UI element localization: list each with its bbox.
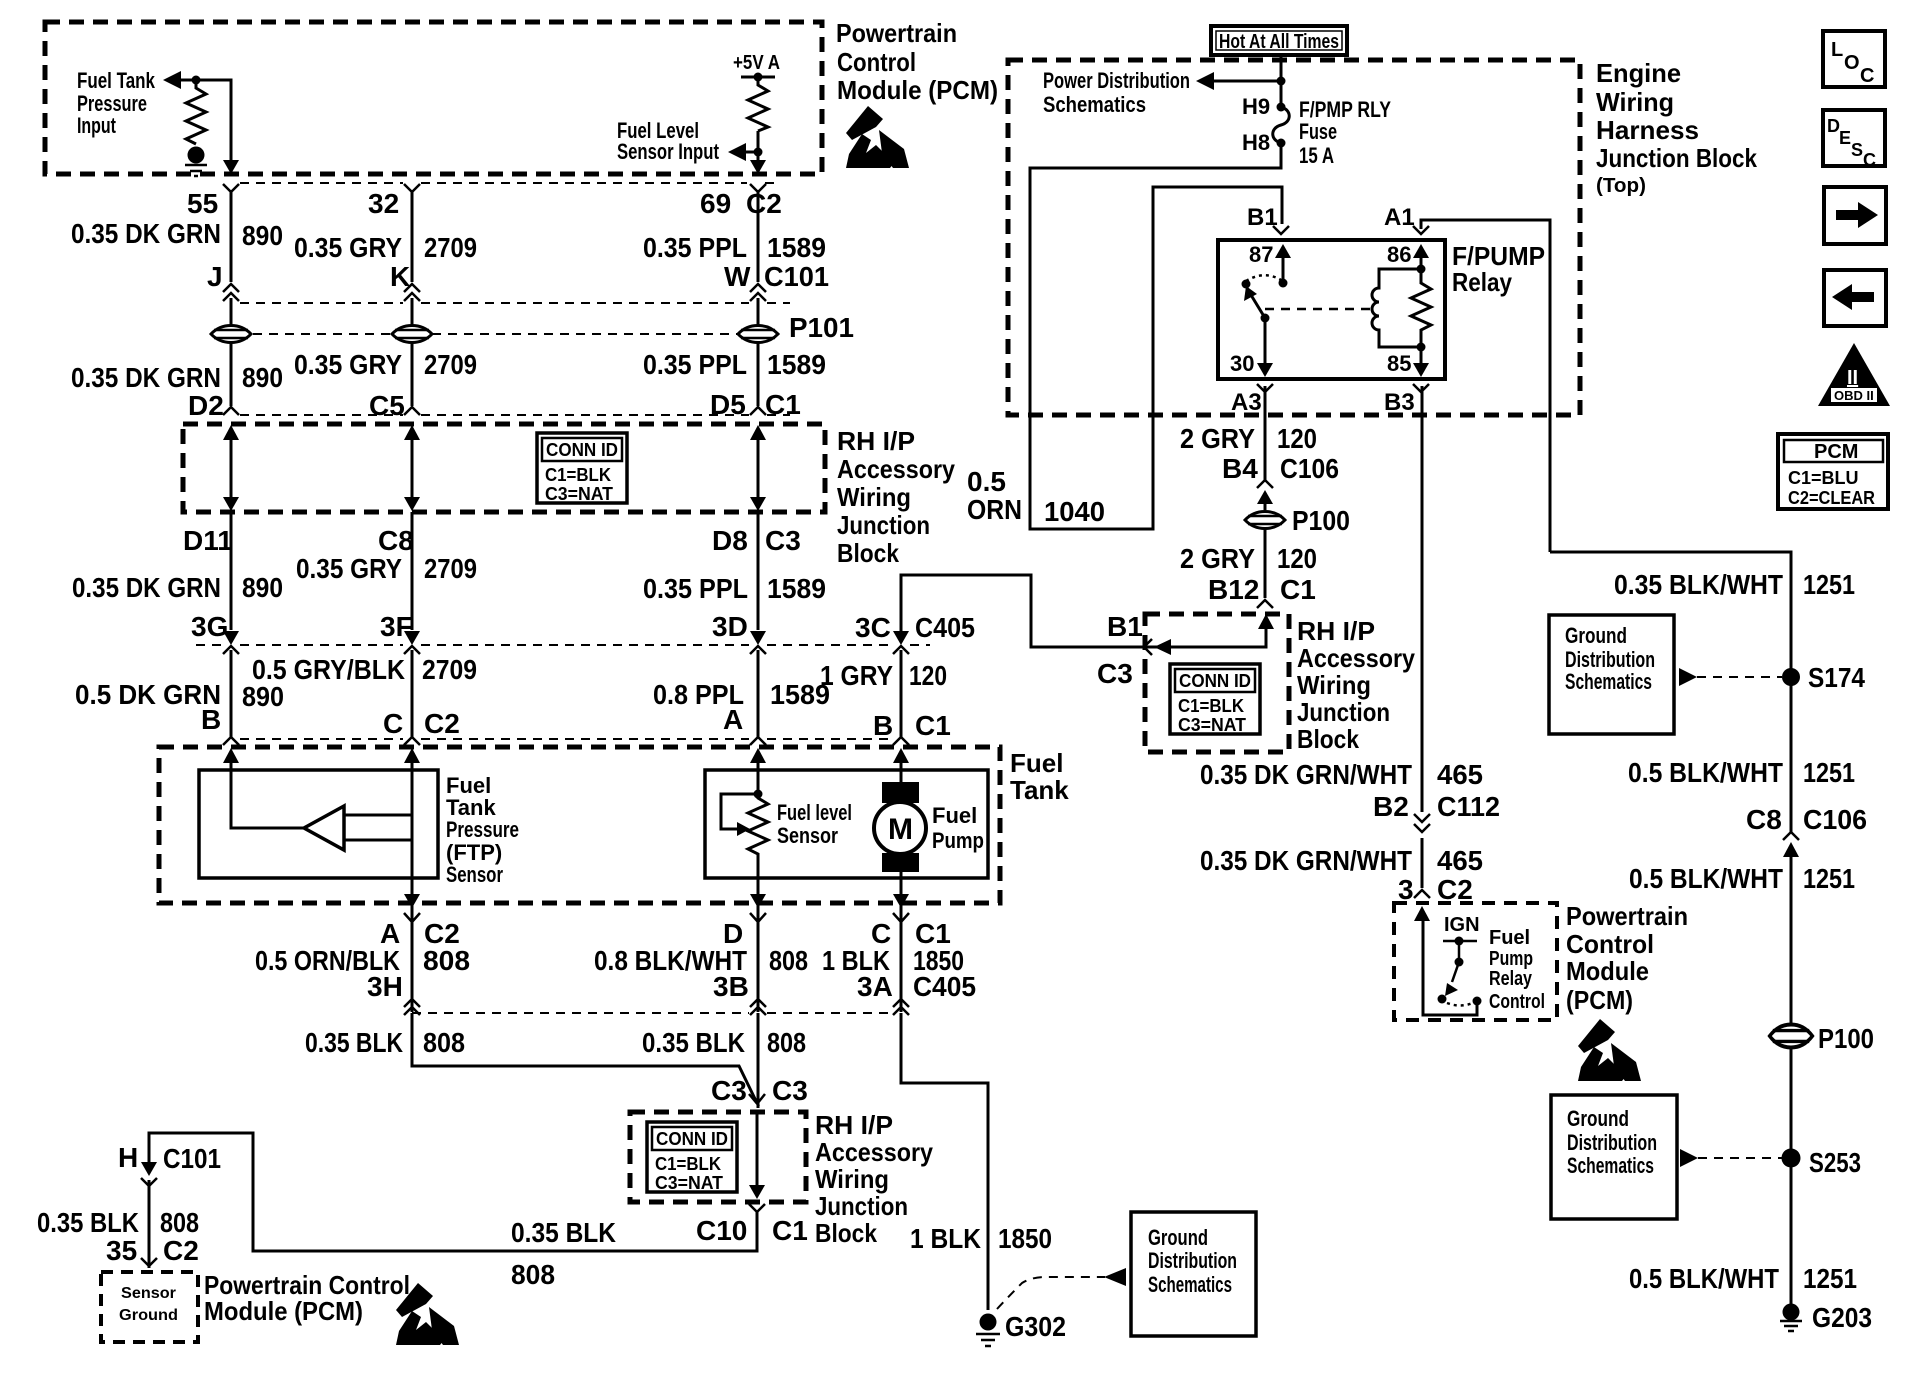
- svg-text:C1: C1: [772, 1215, 808, 1246]
- svg-text:C101: C101: [163, 1143, 221, 1174]
- wire from switch to pin 3: [1423, 918, 1477, 1015]
- relay mechanical dashed link: [1265, 308, 1374, 311]
- arrowheads up into junction wires at tank top: [223, 748, 909, 763]
- svg-text:Sensor Input: Sensor Input: [617, 139, 720, 164]
- svg-text:0.35 PPL: 0.35 PPL: [643, 573, 748, 604]
- svg-text:Schematics: Schematics: [1565, 669, 1652, 694]
- svg-text:C3: C3: [765, 525, 801, 556]
- wiper loop wire: [721, 794, 758, 829]
- svg-text:0.35 PPL: 0.35 PPL: [643, 349, 747, 380]
- svg-text:Fuel: Fuel: [1010, 748, 1063, 778]
- arrowhead down at pin 55: [223, 160, 239, 174]
- wire C101 to P101 (2709): [411, 298, 414, 325]
- Fuel Pump Relay Control label: [1489, 927, 1545, 1013]
- svg-text:B1: B1: [1107, 611, 1143, 642]
- chevron at relay pin B3: [1413, 384, 1429, 392]
- svg-text:A1: A1: [1384, 204, 1415, 231]
- grommet P101 on wire 1589: [738, 326, 778, 343]
- wire junction block 1 to C405 (1589): [757, 512, 760, 630]
- Ground Distribution Schematics text (S253): [1567, 1106, 1657, 1178]
- svg-text:0.35 GRY: 0.35 GRY: [294, 349, 402, 380]
- svg-text:C405: C405: [915, 612, 975, 643]
- svg-text:Junction: Junction: [815, 1191, 908, 1221]
- svg-text:Wiring: Wiring: [815, 1164, 889, 1194]
- IGN feed bar and dot: [1443, 937, 1477, 946]
- svg-text:0.35 DK GRN/WHT: 0.35 DK GRN/WHT: [1200, 759, 1412, 790]
- chevron below junction block 3: [749, 1204, 765, 1212]
- grommet P101 on wire 2709: [392, 326, 432, 343]
- svg-text:OBD II: OBD II: [1834, 388, 1874, 403]
- svg-text:C2: C2: [424, 708, 460, 739]
- svg-text:890: 890: [242, 681, 284, 712]
- svg-text:3B: 3B: [713, 971, 749, 1002]
- Fuel level sensor / pump box: [705, 770, 988, 878]
- wire junction block 1 to C405 (2709): [411, 512, 414, 630]
- Ground Distribution Schematics box (S174): [1549, 615, 1674, 734]
- svg-text:C8: C8: [1746, 804, 1782, 835]
- connector C106 face (chevron and arrow): [1257, 480, 1273, 504]
- svg-text:+5V A: +5V A: [733, 52, 780, 74]
- wire C405 to fuel tank (2709): [411, 650, 414, 738]
- splice dot S253: [1782, 1149, 1801, 1168]
- svg-text:1251: 1251: [1803, 757, 1855, 788]
- svg-text:Module (PCM): Module (PCM): [204, 1296, 363, 1326]
- Hot At All Times box: [1211, 26, 1347, 55]
- svg-text:Accessory: Accessory: [837, 454, 955, 484]
- svg-text:Schematics: Schematics: [1148, 1272, 1232, 1297]
- svg-text:Control: Control: [837, 47, 916, 77]
- svg-text:Power Distribution: Power Distribution: [1043, 68, 1190, 93]
- chassis ground marks under dot: [185, 165, 207, 176]
- F/PUMP Relay title: [1452, 241, 1545, 297]
- svg-text:465: 465: [1437, 759, 1483, 790]
- svg-text:0.35 GRY: 0.35 GRY: [296, 553, 402, 584]
- svg-text:C8: C8: [378, 525, 414, 556]
- wire through junction block 1 (890): [223, 425, 239, 511]
- legend OBD II triangle: [1818, 343, 1890, 406]
- svg-text:3A: 3A: [857, 971, 893, 1002]
- dashed reference line G302 to ground schematics: [997, 1277, 1105, 1309]
- svg-text:C1=BLU: C1=BLU: [1788, 468, 1859, 488]
- svg-text:M: M: [888, 813, 913, 846]
- Fuel level Sensor label: [777, 800, 852, 848]
- svg-text:G302: G302: [1005, 1311, 1066, 1342]
- arrowhead at B1 entry: [1154, 639, 1171, 655]
- relay coil resistor zigzag: [1411, 269, 1431, 347]
- wire into level sensor (1589 leg): [757, 757, 760, 794]
- svg-text:C112: C112: [1437, 791, 1500, 822]
- wire C405 to fuel tank (1589): [757, 650, 760, 738]
- legend LOC box: [1823, 31, 1885, 87]
- Fuel Tank label: [1010, 748, 1069, 805]
- svg-text:P100: P100: [1818, 1023, 1874, 1054]
- RH I/P junction block 1 dashed box: [183, 424, 825, 512]
- fuel tank connector face (chevrons and thin dashed): [223, 737, 909, 745]
- wire 1 GRY 120 from C405 to junction block 2: [901, 575, 1266, 647]
- wire C101 to P101 (890): [230, 298, 233, 325]
- chevron below tank (BLK/WHT): [750, 913, 766, 922]
- svg-text:Fuel level: Fuel level: [777, 800, 852, 825]
- legend right-arrow box: [1824, 187, 1886, 244]
- svg-text:(Top): (Top): [1596, 175, 1646, 197]
- svg-text:P101: P101: [789, 312, 854, 343]
- arrowhead down at pin 69: [750, 160, 766, 174]
- svg-text:B4: B4: [1222, 453, 1258, 484]
- svg-text:Ground: Ground: [1148, 1225, 1208, 1250]
- wire to power distribution reference: [1205, 80, 1281, 83]
- ESD symbol (bottom middle PCM): [1578, 1019, 1641, 1081]
- svg-text:3: 3: [1398, 874, 1414, 905]
- svg-text:120: 120: [1277, 423, 1317, 454]
- connector C2 face (thin dashed with arcs): [223, 183, 775, 192]
- svg-text:Ground: Ground: [1567, 1106, 1629, 1131]
- svg-text:Sensor: Sensor: [446, 862, 503, 887]
- svg-text:P100: P100: [1292, 505, 1350, 536]
- arrowhead to ground distribution box (G302): [1104, 1268, 1126, 1286]
- relay switch dotted travel arc: [1246, 275, 1281, 281]
- svg-text:0.35 DK GRN: 0.35 DK GRN: [72, 572, 221, 603]
- svg-text:1589: 1589: [767, 573, 826, 604]
- chevron at relay pin A3: [1257, 384, 1273, 392]
- wiper dot: [754, 790, 763, 799]
- wire into pump motor: [900, 757, 903, 784]
- fuel pump relay control switch: [1438, 941, 1482, 1006]
- splice dot S174: [1782, 668, 1800, 686]
- svg-text:ORN: ORN: [967, 494, 1022, 525]
- svg-text:808: 808: [511, 1259, 555, 1290]
- legend DESC box: [1823, 110, 1885, 170]
- svg-text:Powertrain: Powertrain: [1566, 901, 1688, 931]
- arrowhead down at tank bottom (FTP return): [404, 894, 420, 908]
- svg-text:PCM: PCM: [1814, 441, 1858, 463]
- FTP sensor box: [199, 770, 438, 878]
- svg-text:0.35 DK GRN: 0.35 DK GRN: [71, 362, 221, 393]
- svg-text:O: O: [1844, 52, 1860, 74]
- wire P101 to junction block (890): [230, 343, 233, 406]
- svg-text:35: 35: [106, 1235, 137, 1266]
- svg-text:Ground: Ground: [1565, 623, 1627, 648]
- Fuel Tank dashed box: [159, 747, 1000, 903]
- svg-text:1589: 1589: [767, 232, 826, 263]
- svg-text:II: II: [1847, 367, 1858, 389]
- svg-text:A3: A3: [1231, 389, 1262, 416]
- svg-text:87: 87: [1249, 242, 1273, 267]
- dashed reference line to S174: [1697, 676, 1782, 678]
- svg-text:H: H: [118, 1142, 138, 1173]
- Ground Distribution Schematics box (S253): [1551, 1095, 1677, 1219]
- resistor (fuel level pull-up) inside PCM: [748, 77, 768, 131]
- svg-text:Pressure: Pressure: [446, 817, 519, 842]
- svg-text:2709: 2709: [424, 553, 477, 584]
- svg-text:Wiring: Wiring: [837, 482, 911, 512]
- svg-text:B3: B3: [1384, 389, 1415, 416]
- wire tank to C405 lower (BLK/WHT leg): [757, 903, 760, 1012]
- svg-text:0.35 BLK/WHT: 0.35 BLK/WHT: [1614, 569, 1783, 600]
- wire C405 to fuel tank (890): [230, 650, 233, 738]
- svg-text:808: 808: [423, 945, 470, 976]
- svg-text:Relay: Relay: [1489, 968, 1533, 990]
- svg-text:Sensor: Sensor: [121, 1285, 176, 1302]
- svg-text:B: B: [201, 704, 221, 735]
- svg-text:890: 890: [242, 362, 283, 393]
- svg-text:C1: C1: [915, 710, 951, 741]
- RH I/P junction block 2 title: [1297, 616, 1415, 754]
- svg-text:Pump: Pump: [1489, 948, 1533, 970]
- svg-text:890: 890: [242, 572, 283, 603]
- grommet P101 on wire 890: [211, 326, 251, 343]
- svg-text:Schematics: Schematics: [1043, 92, 1146, 117]
- svg-text:RH I/P: RH I/P: [815, 1110, 893, 1140]
- svg-text:C405: C405: [913, 971, 976, 1002]
- svg-text:0.35 PPL: 0.35 PPL: [643, 232, 747, 263]
- svg-text:Wiring: Wiring: [1596, 87, 1674, 117]
- svg-text:E: E: [1839, 128, 1851, 148]
- wire tank to C405 lower (pump BLK leg): [900, 903, 903, 1012]
- wire C101 to PCM pin 35: [148, 1180, 151, 1268]
- svg-text:890: 890: [242, 220, 283, 251]
- svg-text:H9: H9: [1242, 94, 1270, 119]
- svg-text:1589: 1589: [767, 349, 826, 380]
- svg-text:69: 69: [700, 188, 731, 219]
- relay pin 86 stub: [1413, 244, 1429, 274]
- connector C106 trunk face (chevron and arrow up): [1783, 832, 1799, 857]
- wire through FTP box (2709 leg): [411, 757, 414, 895]
- svg-text:D2: D2: [188, 390, 224, 421]
- arrowhead into Fuel Tank Pressure Input: [163, 71, 181, 89]
- svg-text:120: 120: [1277, 543, 1317, 574]
- wire B3 to PCM fuel pump relay control: [1421, 386, 1424, 888]
- svg-text:1 GRY: 1 GRY: [820, 660, 893, 691]
- op-amp style triangle (FTP element): [304, 806, 344, 850]
- svg-text:C106: C106: [1803, 804, 1867, 835]
- PCM (top) title text: [836, 18, 998, 105]
- node dot at fuel level input: [754, 148, 763, 157]
- svg-text:0.5 DK GRN: 0.5 DK GRN: [75, 679, 221, 710]
- wiper arrowhead: [737, 822, 750, 836]
- svg-text:0.35 BLK: 0.35 BLK: [642, 1027, 745, 1058]
- svg-text:Distribution: Distribution: [1148, 1248, 1237, 1273]
- svg-text:Wiring: Wiring: [1297, 670, 1371, 700]
- svg-text:Fuse: Fuse: [1299, 119, 1337, 144]
- svg-text:Control: Control: [1566, 929, 1654, 959]
- chevron at relay pin A1: [1413, 226, 1429, 234]
- svg-text:55: 55: [187, 188, 218, 219]
- wire pump ground to G302: [901, 1013, 988, 1310]
- connector C3 chevron: [749, 1094, 765, 1106]
- RH I/P junction block 2 dashed box: [1145, 614, 1289, 752]
- svg-text:2709: 2709: [424, 232, 477, 263]
- PCM (bottom left) title: [204, 1270, 410, 1326]
- svg-text:3H: 3H: [367, 971, 403, 1002]
- arrowhead down at tank bottom (level sensor return): [750, 894, 766, 908]
- arrowhead up into PCM pin 3: [1414, 906, 1430, 921]
- wire P101 to junction block (2709): [411, 343, 414, 406]
- wire pump motor to tank bottom: [900, 870, 903, 895]
- svg-text:C: C: [1860, 65, 1874, 87]
- svg-text:0.35 BLK: 0.35 BLK: [37, 1207, 139, 1238]
- svg-text:D8: D8: [712, 525, 748, 556]
- svg-text:0.35 GRY: 0.35 GRY: [294, 232, 402, 263]
- svg-text:Accessory: Accessory: [815, 1137, 933, 1167]
- chevron at PCM entry (pin 3): [1414, 890, 1430, 898]
- node dot power distribution tap: [1277, 77, 1286, 86]
- svg-text:Junction Block: Junction Block: [1596, 143, 1757, 173]
- svg-text:C2: C2: [746, 188, 782, 219]
- svg-text:Module: Module: [1566, 956, 1649, 986]
- arrowhead to Power Distribution Schematics: [1196, 72, 1214, 90]
- svg-text:Fuel Tank: Fuel Tank: [77, 68, 156, 93]
- svg-text:465: 465: [1437, 845, 1483, 876]
- wire relay 30/A3 down to C106: [1264, 386, 1267, 510]
- wire C10 to sensor ground (long 808 run): [149, 1133, 757, 1251]
- legend PCM connector color table: [1778, 434, 1888, 509]
- svg-text:B: B: [873, 710, 893, 741]
- svg-text:Distribution: Distribution: [1567, 1130, 1657, 1155]
- svg-text:(PCM): (PCM): [1566, 985, 1633, 1015]
- junction block C1 face (chevrons and thin dashed): [223, 407, 790, 415]
- ground G302: [976, 1314, 1000, 1347]
- arrowhead down at tank bottom (pump return): [893, 894, 909, 908]
- svg-text:1251: 1251: [1803, 1263, 1857, 1294]
- svg-text:120: 120: [909, 660, 947, 691]
- svg-text:808: 808: [423, 1027, 465, 1058]
- Ground Distribution Schematics text (G302): [1148, 1225, 1237, 1297]
- PCM (top) dashed box: [45, 22, 822, 174]
- wire through junction block 1 (2709): [404, 425, 420, 511]
- Ground Distribution Schematics text (S174): [1565, 623, 1655, 694]
- svg-text:30: 30: [1230, 351, 1254, 376]
- svg-text:W: W: [724, 261, 751, 292]
- svg-text:S: S: [1851, 140, 1863, 160]
- wire from FTP input arrow to pin 55: [178, 80, 231, 162]
- svg-text:C101: C101: [764, 261, 829, 292]
- relay pin 85 stub: [1413, 347, 1429, 377]
- svg-text:15 A: 15 A: [1299, 143, 1334, 168]
- arrowhead from ground schematics box (S253): [1680, 1149, 1698, 1167]
- arrowhead up into junction block 2: [1258, 614, 1274, 629]
- fuel level sender resistor: [748, 794, 768, 895]
- wire 808 from 3B to C3: [757, 1013, 760, 1108]
- chevron at B1 edge: [1144, 639, 1152, 655]
- wire junction block 1 to C405 (890): [230, 512, 233, 630]
- svg-text:Pump: Pump: [932, 828, 984, 853]
- svg-text:S174: S174: [1808, 662, 1865, 693]
- svg-text:Block: Block: [815, 1218, 877, 1248]
- svg-text:1589: 1589: [770, 679, 830, 710]
- svg-text:C1: C1: [1280, 574, 1316, 605]
- wire 2709 PCM pin 32 to C101: [411, 190, 414, 282]
- relay pin 30 stub: [1257, 318, 1273, 377]
- RH I/P junction block 1 title: [837, 426, 955, 568]
- wire P101 to junction block (1589): [757, 343, 760, 406]
- svg-text:Fuel: Fuel: [1489, 927, 1530, 949]
- svg-text:Hot At All Times: Hot At All Times: [1219, 31, 1339, 53]
- relay armature link dot: [1261, 314, 1270, 323]
- relay coil element: [1372, 269, 1421, 347]
- svg-text:C2: C2: [1437, 874, 1473, 905]
- svg-text:A: A: [723, 704, 743, 735]
- svg-text:3D: 3D: [712, 611, 748, 642]
- grommet P100 (GRY 120): [1245, 512, 1285, 529]
- trunk wire BLK/WHT 1251: [1550, 552, 1791, 1310]
- svg-text:C10: C10: [696, 1215, 747, 1246]
- svg-text:Harness: Harness: [1596, 115, 1699, 145]
- svg-text:Junction: Junction: [1297, 697, 1390, 727]
- svg-text:G203: G203: [1812, 1302, 1872, 1333]
- svg-text:Sensor: Sensor: [777, 823, 838, 848]
- fuse label F/PMP RLY Fuse 15 A: [1299, 97, 1391, 168]
- svg-text:C106: C106: [1280, 453, 1339, 484]
- svg-text:C2=CLEAR: C2=CLEAR: [1788, 488, 1875, 508]
- svg-text:1251: 1251: [1803, 569, 1855, 600]
- svg-text:J: J: [207, 261, 223, 292]
- connector C112 face (double chevron down): [1414, 814, 1430, 832]
- wire 1589 PCM pin 69 to C101: [757, 190, 760, 282]
- svg-text:0.5 BLK/WHT: 0.5 BLK/WHT: [1628, 757, 1783, 788]
- grommet P100 (trunk): [1770, 1025, 1813, 1048]
- PCM (bottom middle) dashed box: [1394, 903, 1557, 1020]
- wire 0.5 ORN 1040 fuse to relay B1: [1030, 143, 1282, 529]
- CONN ID box (junction block 3): [647, 1122, 737, 1193]
- svg-text:Block: Block: [1297, 724, 1359, 754]
- svg-text:1850: 1850: [998, 1223, 1052, 1254]
- Fuel Pump label: [932, 803, 984, 853]
- svg-text:0.5 BLK/WHT: 0.5 BLK/WHT: [1629, 863, 1783, 894]
- svg-text:S253: S253: [1809, 1147, 1861, 1178]
- svg-text:32: 32: [368, 188, 399, 219]
- svg-text:Schematics: Schematics: [1567, 1153, 1654, 1178]
- wire C405 to fuel tank (pump feed): [900, 650, 903, 738]
- wire 890 PCM pin 55 to C101: [230, 190, 233, 282]
- fuse F/PMP RLY 15A: [1273, 103, 1290, 148]
- svg-text:Module (PCM): Module (PCM): [837, 75, 998, 105]
- chevron below tank (ORN/BLK): [404, 913, 420, 922]
- svg-text:RH I/P: RH I/P: [1297, 616, 1375, 646]
- wire through junction block 3 with arrow: [749, 1112, 765, 1199]
- svg-text:L: L: [1831, 39, 1843, 61]
- ESD symbol (bottom left PCM): [396, 1283, 459, 1345]
- svg-text:Input: Input: [77, 113, 116, 138]
- wire 808 from 3H joining C3: [412, 1013, 757, 1103]
- svg-text:Junction: Junction: [837, 510, 930, 540]
- node dot at FTP resistor top: [192, 76, 201, 85]
- svg-text:2709: 2709: [422, 654, 477, 685]
- svg-text:Control: Control: [1489, 991, 1545, 1013]
- svg-text:0.35 BLK: 0.35 BLK: [305, 1027, 403, 1058]
- svg-text:2709: 2709: [424, 349, 477, 380]
- sensor ground dot below resistor: [188, 147, 205, 164]
- svg-text:C3: C3: [772, 1075, 808, 1106]
- svg-text:C: C: [383, 708, 403, 739]
- svg-text:Relay: Relay: [1452, 267, 1512, 297]
- wire P100 to junction block 2: [1264, 529, 1267, 598]
- svg-text:C3: C3: [711, 1075, 747, 1106]
- svg-text:808: 808: [767, 1027, 806, 1058]
- arrowhead from ground schematics box (S174): [1679, 668, 1697, 686]
- svg-text:C: C: [1863, 150, 1876, 170]
- chevron below tank (pump BLK): [893, 913, 909, 922]
- wire tank to C405 lower (ORN/BLK leg): [411, 903, 414, 1012]
- svg-text:3C: 3C: [855, 612, 891, 643]
- svg-text:C3: C3: [1097, 658, 1133, 689]
- svg-text:1251: 1251: [1803, 863, 1855, 894]
- relay coil bottom dot: [1417, 343, 1426, 352]
- wire C101 to P101 (1589): [757, 298, 760, 325]
- Ground Distribution Schematics box (G302): [1131, 1212, 1256, 1336]
- connector C101 bottom face (arrow and chevron): [141, 1162, 157, 1186]
- svg-text:Ground: Ground: [119, 1307, 178, 1324]
- Power Distribution Schematics label: [1043, 68, 1190, 117]
